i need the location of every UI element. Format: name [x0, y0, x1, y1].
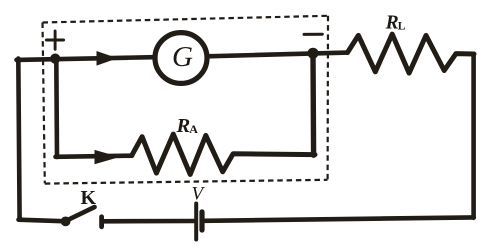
- wire: right rail (vertical): [471, 54, 476, 218]
- arrow (current direction) on top wire: [97, 51, 118, 66]
- svg-text:V: V: [192, 184, 206, 205]
- wire: bottom right (battery to right rail): [204, 217, 474, 220]
- switch K: left pivot dot: [61, 217, 71, 227]
- switch K: right terminal: [99, 217, 104, 227]
- svg-text:R: R: [385, 12, 399, 33]
- battery V: long plate (left): [194, 204, 198, 240]
- galvanometer G (circle): [155, 33, 207, 84]
- wire: branch up to - junction: [310, 55, 316, 155]
- node: junction dot at + terminal: [50, 54, 60, 64]
- svg-text:K: K: [81, 187, 97, 209]
- wire: left rail (vertical): [18, 59, 19, 220]
- svg-text:G: G: [172, 41, 193, 73]
- svg-text:A: A: [189, 122, 198, 136]
- - polarity mark: [304, 33, 322, 36]
- wire: R_A lead (left horizontal): [56, 156, 133, 157]
- svg-text:R: R: [176, 115, 191, 137]
- wire: galvanometer to R_L (passes - terminal junction): [207, 53, 348, 57]
- node: junction dot at - terminal: [308, 48, 319, 59]
- wire: bottom-left to switch: [19, 220, 64, 222]
- + polarity mark: [46, 31, 63, 49]
- arrow (current direction) on R_A branch: [95, 150, 120, 164]
- dashed box (ammeter enclosure): [43, 16, 329, 184]
- svg-text:L: L: [398, 21, 406, 33]
- resistor R_A (zigzag): [132, 134, 315, 174]
- wire: top-left horizontal to galvanometer: [17, 57, 154, 60]
- resistor R_L (zigzag): [348, 34, 475, 73]
- battery V: short thick plate (right): [199, 212, 204, 230]
- wire: switch to battery: [104, 219, 195, 224]
- wire: branch down from + junction: [54, 59, 59, 158]
- switch K: lever (open): [66, 207, 95, 221]
